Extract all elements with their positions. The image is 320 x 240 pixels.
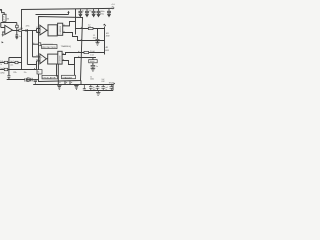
svg-text:100n: 100n <box>93 37 97 39</box>
svg-text:1k: 1k <box>0 64 2 66</box>
svg-text:10n: 10n <box>28 80 31 82</box>
svg-text:1.04: 1.04 <box>88 26 91 28</box>
svg-text:4n7: 4n7 <box>105 87 108 89</box>
svg-text:40W: 40W <box>105 50 109 52</box>
svg-text:40W: 40W <box>106 35 110 37</box>
svg-text:OSCILLATOR: OSCILLATOR <box>43 76 56 79</box>
svg-text:100n: 100n <box>90 79 94 81</box>
svg-text:2n2: 2n2 <box>93 89 96 91</box>
svg-text:470n: 470n <box>26 26 30 28</box>
svg-text:STANDBY: STANDBY <box>62 76 72 79</box>
svg-text:1n: 1n <box>105 89 107 91</box>
svg-text:TDA8560Q: TDA8560Q <box>61 45 72 48</box>
svg-text:PROTECTION: PROTECTION <box>42 47 56 49</box>
svg-text:1u: 1u <box>96 66 98 68</box>
svg-text:2k: 2k <box>5 14 7 16</box>
svg-text:2.2uH: 2.2uH <box>90 51 95 53</box>
svg-text:4k: 4k <box>3 17 5 19</box>
svg-text:22n: 22n <box>24 72 27 74</box>
svg-text:22u: 22u <box>10 64 13 66</box>
svg-text:H-BRIDGE: H-BRIDGE <box>60 55 62 63</box>
svg-text:1.04: 1.04 <box>90 55 93 57</box>
svg-text:5k: 5k <box>38 72 40 74</box>
svg-text:7k: 7k <box>3 19 5 21</box>
svg-text:100nF: 100nF <box>90 61 96 63</box>
svg-text:24k: 24k <box>20 28 23 30</box>
svg-text:2x: 2x <box>82 10 84 12</box>
svg-text:ST-BY: ST-BY <box>109 83 115 85</box>
svg-text:47u: 47u <box>89 11 92 13</box>
svg-text:1u: 1u <box>93 87 95 89</box>
svg-text:H-BRIDGE: H-BRIDGE <box>60 26 62 34</box>
svg-text:470u: 470u <box>100 13 104 15</box>
svg-text:4n7: 4n7 <box>19 36 22 38</box>
